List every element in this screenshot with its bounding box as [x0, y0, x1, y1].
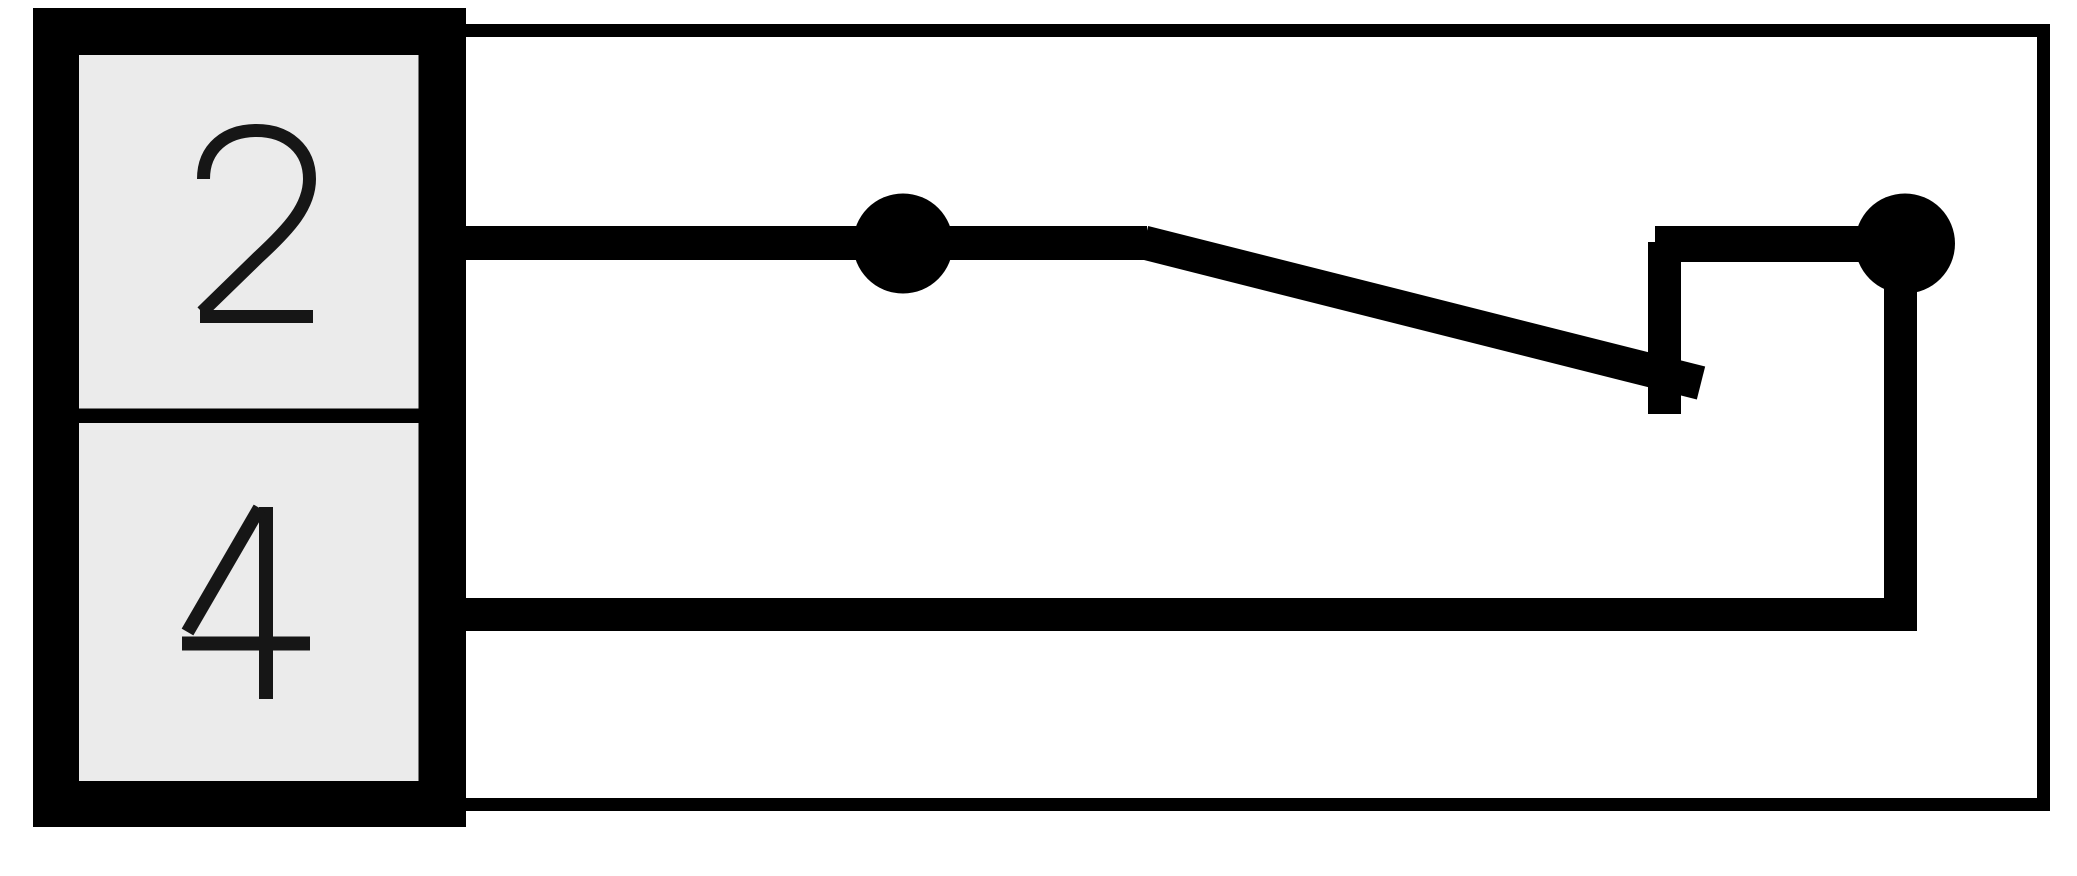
wire: terminal 2 to switch common node: [466, 226, 1147, 260]
node: switch common (left dot): [853, 194, 953, 294]
terminal block (black): [33, 8, 466, 827]
wire: right node down and back to terminal 4: [466, 243, 1901, 615]
terminal 4 cell: [79, 423, 419, 781]
contact arm (horizontal to right node): [1655, 226, 1905, 262]
pin number 4: [182, 507, 310, 699]
enclosure outline: [466, 31, 2044, 805]
terminal 2 cell: [79, 55, 419, 409]
switch lever (NO contact, shown open): [1144, 243, 1701, 384]
pin number 2: [200, 131, 313, 317]
contact post (vertical): [1648, 242, 1681, 414]
node: contact output (right dot): [1855, 194, 1955, 294]
